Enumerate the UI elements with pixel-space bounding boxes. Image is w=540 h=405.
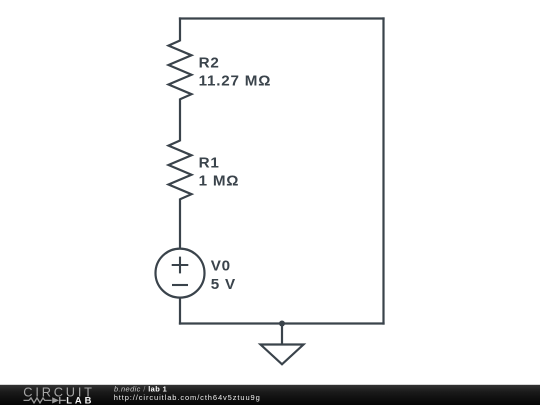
logo resistor-diode symbol <box>24 397 66 404</box>
svg-text:http://circuitlab.com/cth64v5z: http://circuitlab.com/cth64v5ztuu9g <box>114 393 261 402</box>
node junction dot <box>279 321 285 327</box>
wire R2 to R1 <box>179 99 181 142</box>
footer user / title line <box>114 384 167 393</box>
svg-text:1 MΩ: 1 MΩ <box>199 172 240 189</box>
svg-text:R2: R2 <box>199 54 220 71</box>
label R2 name <box>199 54 220 71</box>
footer url line <box>114 393 261 402</box>
resistor R1 <box>169 141 192 200</box>
wire left top (corner to R2) <box>179 17 181 41</box>
label V0 name <box>211 258 231 275</box>
wire V0 to bottom rail <box>179 298 181 325</box>
label V0 value <box>211 276 236 293</box>
label R2 value <box>199 72 272 89</box>
svg-text:V0: V0 <box>211 258 231 275</box>
logo LAB wordmark <box>66 395 94 405</box>
svg-text:LAB: LAB <box>66 395 94 405</box>
logo CIRCUIT wordmark <box>23 384 95 399</box>
label R1 value <box>199 172 240 189</box>
svg-text:R1: R1 <box>199 154 220 171</box>
ground <box>261 324 304 365</box>
wire bottom rail <box>179 322 385 324</box>
resistor R2 <box>169 41 192 100</box>
svg-text:11.27 MΩ: 11.27 MΩ <box>199 72 272 89</box>
label R1 name <box>199 154 220 171</box>
wire right rail <box>382 17 384 324</box>
wire R1 to V0 <box>179 199 181 249</box>
voltage source V0 <box>156 249 205 298</box>
svg-text:5 V: 5 V <box>211 276 236 293</box>
wire top rail <box>179 17 385 19</box>
